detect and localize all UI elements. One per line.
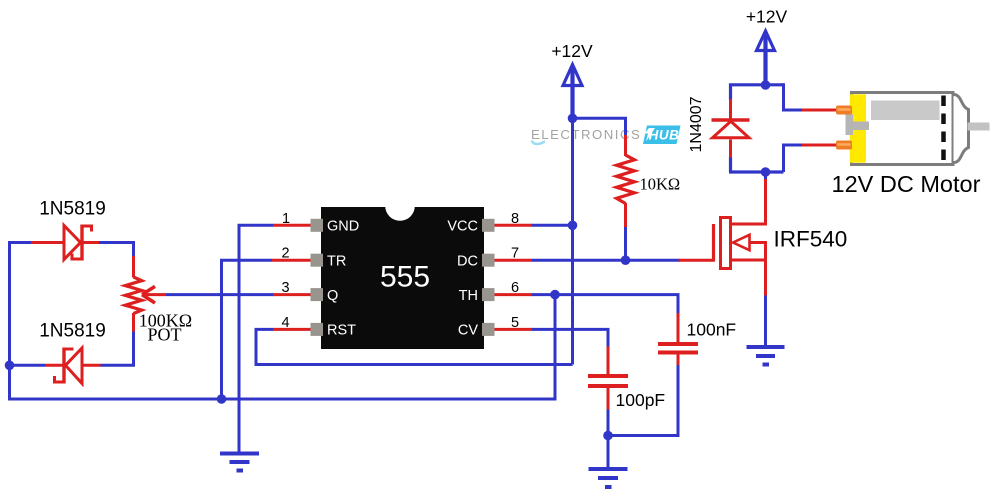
wire red wiper lead: [143, 293, 166, 296]
wire red pin stubs right side: [493, 225, 532, 329]
node motor +12V junction: [761, 80, 771, 90]
wire red leads of 100pF capacitor: [607, 347, 610, 410]
wire pin1 GND left and down to ground: [239, 225, 274, 453]
svg-text:TR: TR: [327, 253, 346, 269]
svg-text:Q: Q: [327, 288, 338, 304]
node DC/10K junction: [621, 255, 631, 265]
svg-text:TH: TH: [459, 288, 478, 304]
transistor Q1 IRF540 MOSFET: [714, 218, 750, 269]
motor M 12V DC Motor: [836, 93, 990, 165]
svg-text:4: 4: [281, 315, 289, 331]
svg-text:2: 2: [281, 246, 289, 262]
pin 4 RST: [311, 323, 324, 336]
capacitor C2 100pF: [588, 376, 628, 386]
wire red leads of bottom diode D2: [45, 364, 101, 367]
pin 2 TR: [311, 254, 324, 267]
node motor/drain junction: [761, 167, 771, 177]
pin 5 CV: [482, 323, 495, 336]
wire red motor terminal leads: [802, 110, 837, 145]
wire motor bottom terminal down to junction: [782, 144, 785, 173]
watermark ELECTRONICS HUB logo: [531, 126, 681, 145]
svg-text:POT: POT: [147, 325, 181, 345]
diode D2 1N5819 (bottom, pointing left, schottky): [55, 348, 83, 384]
svg-text:IRF540: IRF540: [774, 227, 848, 252]
svg-text:1N5819: 1N5819: [39, 199, 106, 220]
node TR/bus junction: [217, 394, 227, 404]
svg-text:1N5819: 1N5819: [39, 321, 106, 342]
diode D1 1N5819 (top, pointing right, schottky): [64, 225, 92, 261]
svg-text:CV: CV: [458, 323, 478, 339]
pin 8 VCC: [482, 219, 495, 232]
node junction dots: [5, 80, 771, 440]
wire left loop: left vertical, bottom bus, TH vertical: [10, 241, 556, 399]
node bottom-left diode junction: [5, 361, 15, 371]
wire pin6 TH row blue and 100nF branch: [531, 293, 678, 435]
node capacitor ground junction: [603, 431, 613, 441]
wire MOSFET source to ground: [764, 294, 767, 347]
svg-text:6: 6: [511, 280, 519, 296]
wire red MOSFET source stubs: [729, 241, 767, 296]
svg-text:DC: DC: [457, 253, 478, 269]
pot wiper arrow: [142, 286, 155, 303]
svg-text:GND: GND: [327, 219, 359, 235]
svg-text:1N4007: 1N4007: [688, 96, 705, 152]
wire pin4 RST left, down, and right to +12V rail: [256, 329, 573, 364]
wire pin5 CV row blue and 100pF branch: [531, 329, 608, 469]
wire red leads of 100nF capacitor: [677, 313, 680, 365]
ground (MOSFET source): [747, 347, 785, 365]
wire red leads of top diode D1: [31, 241, 99, 244]
node VCC junction: [568, 221, 578, 231]
pin 7 DC: [482, 254, 495, 267]
svg-text:100nF: 100nF: [687, 320, 737, 340]
wire MOSFET drain blue stub below junction: [764, 172, 767, 180]
svg-text:12V DC Motor: 12V DC Motor: [832, 171, 981, 197]
svg-text:VCC: VCC: [447, 219, 478, 235]
svg-text:555: 555: [380, 261, 430, 294]
wire red leads of 10K resistor: [624, 135, 627, 227]
node +12V/10K branch junction: [568, 114, 578, 124]
wire pot bottom to bottom row: [8, 331, 134, 367]
node TH junction: [550, 290, 560, 300]
power symbol +12V (left, to 555 rail): [551, 41, 593, 86]
svg-text:7: 7: [511, 246, 519, 262]
pin 1 GND: [311, 219, 324, 232]
wire red gate lead to MOSFET: [679, 259, 715, 262]
svg-text:1: 1: [282, 211, 290, 227]
wire motor top terminal: [782, 83, 803, 145]
potentiometer 100K POT zigzag: [125, 277, 142, 314]
wire red pin stubs left side: [272, 225, 313, 329]
ground (bottom center, capacitors): [589, 469, 628, 487]
svg-text:5: 5: [511, 315, 519, 331]
wire +12V motor branch horizontals and 1N4007 loop: [729, 33, 784, 172]
wire red MOSFET drain up to motor junction: [729, 179, 767, 226]
pin 6 TH: [482, 288, 495, 301]
wire 10K resistor branch: [573, 118, 626, 260]
capacitor C1 100nF: [658, 344, 698, 353]
svg-text:HUB: HUB: [649, 128, 680, 143]
wire pin2 TR left and down to bus: [222, 260, 273, 399]
resistor R1 10K zigzag: [617, 155, 635, 204]
wire top diode row blue segments: [8, 241, 135, 257]
wire red stubs of potentiometer: [132, 256, 135, 332]
svg-text:10KΩ: 10KΩ: [640, 175, 681, 194]
diode D3 1N4007 (vertical, cathode bar on top): [712, 120, 750, 138]
svg-text:8: 8: [511, 211, 519, 227]
power symbol +12V (right, to motor): [746, 7, 788, 51]
svg-text:3: 3: [281, 280, 289, 296]
op-amp / IC U1 555 timer body: [321, 191, 484, 349]
svg-text:100pF: 100pF: [616, 390, 666, 410]
wire wiper row blue: [166, 293, 274, 296]
wire pin7 DC row blue: [531, 259, 680, 262]
ground (center, from pin 1): [220, 454, 259, 471]
pin 3 Q: [311, 288, 324, 301]
wire red leads of 1N4007: [729, 99, 732, 158]
svg-text:RST: RST: [327, 323, 356, 339]
svg-text:+12V: +12V: [551, 41, 593, 61]
svg-text:+12V: +12V: [746, 7, 788, 27]
wire +12V rail vertical with pin8 branch: [531, 66, 573, 365]
